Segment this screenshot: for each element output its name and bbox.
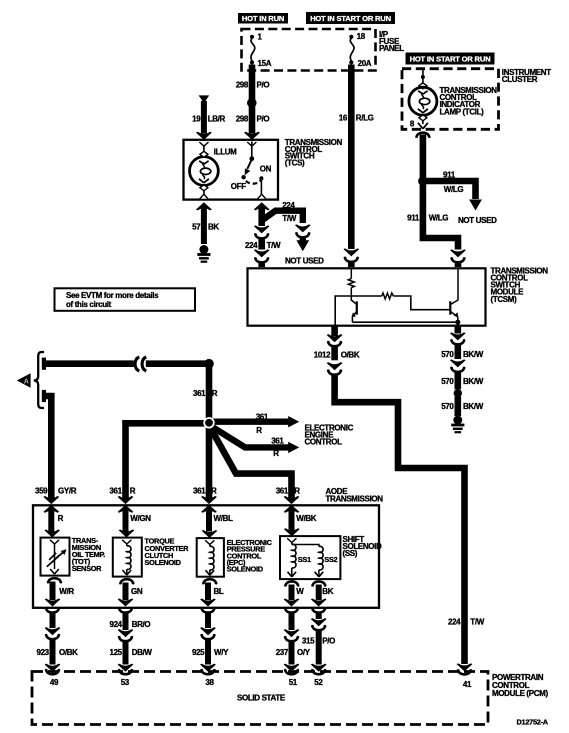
wire 1012 O/BK from TCSM to PCM pin 41	[314, 327, 485, 676]
wire W from SS1	[284, 580, 305, 606]
svg-text:SS2: SS2	[324, 555, 337, 564]
svg-text:51: 51	[289, 678, 298, 687]
svg-text:224: 224	[245, 241, 258, 250]
svg-text:911: 911	[443, 170, 456, 179]
svg-text:T/W: T/W	[282, 214, 296, 223]
svg-text:15A: 15A	[258, 59, 272, 68]
TCS box (transmission control switch)	[184, 140, 279, 200]
header HOT IN START OR RUN (instrument cluster)	[406, 53, 495, 65]
TCS switch (OFF/ON)	[231, 142, 272, 199]
svg-text:BK/W: BK/W	[463, 402, 484, 411]
svg-text:R: R	[211, 487, 217, 496]
svg-text:CLUSTER: CLUSTER	[502, 75, 538, 84]
svg-text:BK/W: BK/W	[463, 350, 484, 359]
fuse 1 (15A)	[250, 33, 272, 68]
note box: See EVTM	[55, 288, 196, 311]
svg-text:570: 570	[441, 402, 454, 411]
TOT sensor box	[41, 538, 70, 576]
svg-text:P/O: P/O	[257, 115, 270, 124]
POWERTRAIN CONTROL MODULE label	[492, 673, 548, 698]
svg-text:BR/O: BR/O	[132, 620, 151, 629]
svg-text:of this circuit: of this circuit	[66, 300, 112, 309]
svg-text:O/Y: O/Y	[297, 648, 311, 657]
svg-text:BK: BK	[208, 222, 219, 231]
svg-text:224: 224	[282, 201, 295, 210]
PCM pin numbers	[50, 678, 472, 689]
node junction (361 R splice)	[203, 417, 214, 428]
wire W/BK (SS feed)	[284, 509, 317, 537]
svg-text:D12752-A: D12752-A	[517, 718, 549, 727]
TOT label	[72, 536, 105, 573]
svg-text:O/BK: O/BK	[341, 350, 360, 359]
ELECTRONIC ENGINE CONTROL label	[305, 424, 354, 447]
svg-text:W/BL: W/BL	[214, 514, 234, 523]
wire 924 BR/O / 125 DB/W to PCM pin 53	[109, 607, 152, 675]
instrument cluster dashed box	[402, 69, 499, 130]
wire BL from EPC	[200, 578, 224, 607]
connector A triangle	[17, 373, 31, 388]
svg-text:(SS): (SS)	[343, 549, 358, 558]
fuse 2 (20A)	[349, 32, 372, 68]
svg-text:57: 57	[192, 222, 201, 231]
INSTRUMENT CLUSTER label	[502, 68, 551, 84]
svg-text:CONTROL: CONTROL	[305, 438, 343, 447]
wire 361 R vertical node trunk	[193, 364, 218, 513]
I/P fuse panel dashed box	[242, 29, 376, 71]
wire 237 O/Y to PCM pin 51	[276, 607, 311, 675]
svg-text:SS1: SS1	[298, 555, 311, 564]
svg-text:298: 298	[236, 81, 249, 90]
svg-text:R: R	[212, 389, 218, 398]
TCS illumination lamp	[190, 146, 238, 199]
svg-text:T/W: T/W	[267, 241, 281, 250]
TCC label	[145, 537, 190, 568]
svg-text:R: R	[130, 487, 136, 496]
svg-text:R/LG: R/LG	[356, 114, 374, 123]
wire 925 W/Y to PCM pin 38	[192, 607, 229, 675]
TCC solenoid box	[113, 538, 142, 577]
svg-text:361: 361	[256, 413, 269, 422]
wire 224 T/W from switch to TCSM	[245, 194, 281, 267]
svg-text:38: 38	[205, 678, 214, 687]
emitter bus wire	[352, 320, 460, 326]
svg-text:HOT IN START OR RUN: HOT IN START OR RUN	[310, 14, 391, 23]
svg-text:923: 923	[36, 648, 49, 657]
svg-text:52: 52	[314, 678, 323, 687]
svg-text:19: 19	[192, 115, 201, 124]
svg-text:SOLENOID: SOLENOID	[145, 558, 182, 567]
AODE transmission box	[33, 505, 379, 608]
svg-text:361: 361	[271, 436, 284, 445]
svg-text:298: 298	[236, 115, 249, 124]
wire 19 LB/R with from-triangle	[192, 95, 225, 139]
wire 361 R left branch to TCC	[109, 423, 209, 512]
wire (A) horizontal to node, with inline connector	[42, 357, 214, 371]
svg-text:SOLID STATE: SOLID STATE	[237, 694, 286, 703]
svg-text:570: 570	[441, 350, 454, 359]
svg-text:361: 361	[193, 389, 206, 398]
svg-text:P/O: P/O	[257, 81, 270, 90]
wire 359 GY/R from A to AODE	[35, 390, 77, 513]
resistor R1 (vertical, from 16 R/LG)	[348, 270, 354, 301]
svg-text:359: 359	[35, 487, 48, 496]
svg-text:PANEL: PANEL	[379, 44, 404, 53]
wire 923 O/BK to PCM pin 49	[36, 607, 78, 675]
svg-text:361: 361	[193, 487, 206, 496]
svg-text:237: 237	[276, 648, 289, 657]
svg-text:SOLENOID: SOLENOID	[227, 565, 264, 574]
svg-text:911: 911	[407, 214, 420, 223]
TCIL label	[440, 86, 498, 117]
svg-text:924: 924	[109, 620, 122, 629]
TCIL lamp (transmission control indicator lamp)	[409, 70, 437, 129]
svg-text:R: R	[256, 426, 262, 435]
svg-text:16: 16	[339, 114, 348, 123]
svg-text:R: R	[294, 487, 300, 496]
wire 298 P/O from fuse 1 to TCS	[236, 65, 270, 140]
svg-text:ON: ON	[260, 164, 272, 173]
svg-text:LB/R: LB/R	[208, 115, 226, 124]
svg-text:361: 361	[276, 487, 289, 496]
EPC label	[227, 538, 273, 574]
svg-text:224: 224	[448, 618, 461, 627]
svg-text:NOT USED: NOT USED	[285, 256, 324, 265]
branch 224 T/W to NOT USED	[262, 201, 324, 265]
svg-text:W/Y: W/Y	[214, 648, 229, 657]
wire 315 P/O to PCM pin 52	[302, 607, 335, 675]
TCSM box (transmission control switch module)	[248, 268, 486, 325]
svg-text:W/LG: W/LG	[429, 214, 449, 223]
wire R (TOT feed inside AODE)	[44, 509, 63, 538]
svg-text:MODULE (PCM): MODULE (PCM)	[492, 689, 548, 698]
svg-text:T/W: T/W	[470, 618, 484, 627]
EPC solenoid box	[197, 538, 224, 577]
svg-text:315: 315	[302, 636, 315, 645]
svg-text:18: 18	[357, 32, 366, 41]
header HOT IN RUN	[238, 13, 288, 24]
svg-text:53: 53	[121, 678, 130, 687]
svg-text:HOT IN START OR RUN: HOT IN START OR RUN	[410, 54, 491, 63]
svg-text:49: 49	[50, 678, 59, 687]
resistor R2 (horizontal, base of Q2) + node wiring	[335, 293, 450, 325]
svg-text:41: 41	[463, 680, 472, 689]
svg-text:925: 925	[192, 648, 205, 657]
svg-text:W/GN: W/GN	[130, 514, 151, 523]
svg-text:570: 570	[441, 377, 454, 386]
wire W/BL (EPC feed)	[202, 509, 233, 539]
svg-text:A: A	[24, 379, 29, 386]
svg-text:BL: BL	[214, 587, 224, 596]
svg-text:BK/W: BK/W	[463, 377, 484, 386]
TCSM label	[491, 266, 549, 303]
svg-text:OFF: OFF	[231, 182, 246, 191]
header HOT IN START OR RUN (fuse panel)	[306, 12, 395, 24]
svg-text:W/R: W/R	[59, 587, 74, 596]
AODE TRANSMISSION label	[326, 487, 384, 504]
wire 57 BK to ground	[192, 194, 219, 262]
svg-text:NOT USED: NOT USED	[458, 216, 497, 225]
svg-text:W: W	[296, 587, 304, 596]
wire 16 R/LG from fuse 2 to TCSM	[339, 65, 374, 268]
svg-text:SENSOR: SENSOR	[72, 564, 102, 573]
wire GN from TCC	[118, 578, 143, 607]
svg-text:1012: 1012	[314, 350, 331, 359]
svg-text:R: R	[58, 514, 64, 523]
arrow 361 R to electronic engine control (upper)	[209, 413, 299, 435]
svg-text:GY/R: GY/R	[58, 487, 77, 496]
SS shift solenoid box	[280, 536, 340, 579]
svg-text:W/LG: W/LG	[444, 185, 464, 194]
transistor Q2	[450, 270, 458, 323]
TCS label	[285, 138, 343, 168]
svg-text:125: 125	[109, 648, 122, 657]
svg-text:DB/W: DB/W	[132, 648, 153, 657]
wire 911 W/LG from cluster	[407, 131, 466, 267]
SS label	[343, 535, 383, 558]
svg-text:W/BK: W/BK	[296, 514, 317, 523]
wire W/R from TOT	[45, 577, 75, 607]
svg-text:O/BK: O/BK	[59, 648, 78, 657]
arrow 361 R to electronic engine control (lower)	[212, 427, 300, 458]
wire BK from SS2	[311, 580, 334, 606]
bracket brace at connector A	[34, 352, 44, 408]
svg-text:20A: 20A	[358, 59, 372, 68]
svg-text:(TCSM): (TCSM)	[491, 295, 518, 304]
svg-text:LAMP (TCIL): LAMP (TCIL)	[440, 107, 485, 116]
svg-text:GN: GN	[131, 587, 143, 596]
TCS entry notches	[199, 141, 209, 146]
svg-text:ILLUM: ILLUM	[214, 148, 237, 157]
wire W/GN (TCC feed)	[119, 509, 152, 538]
svg-text:HOT IN RUN: HOT IN RUN	[242, 14, 284, 23]
wire 361 R diagonal branch to SS	[211, 428, 301, 513]
wire 570 BK/W chain to ground	[441, 327, 484, 433]
svg-text:361: 361	[109, 487, 122, 496]
PCM dashed box (powertrain control module)	[32, 672, 488, 725]
svg-text:P/O: P/O	[322, 636, 335, 645]
transistor Q1	[351, 300, 357, 322]
svg-text:(TCS): (TCS)	[285, 159, 305, 168]
I/P FUSE PANEL label	[379, 30, 404, 53]
svg-text:BK: BK	[322, 587, 333, 596]
branch 911 to NOT USED	[423, 170, 497, 224]
svg-text:TRANSMISSION: TRANSMISSION	[326, 495, 384, 504]
svg-text:R: R	[273, 449, 279, 458]
